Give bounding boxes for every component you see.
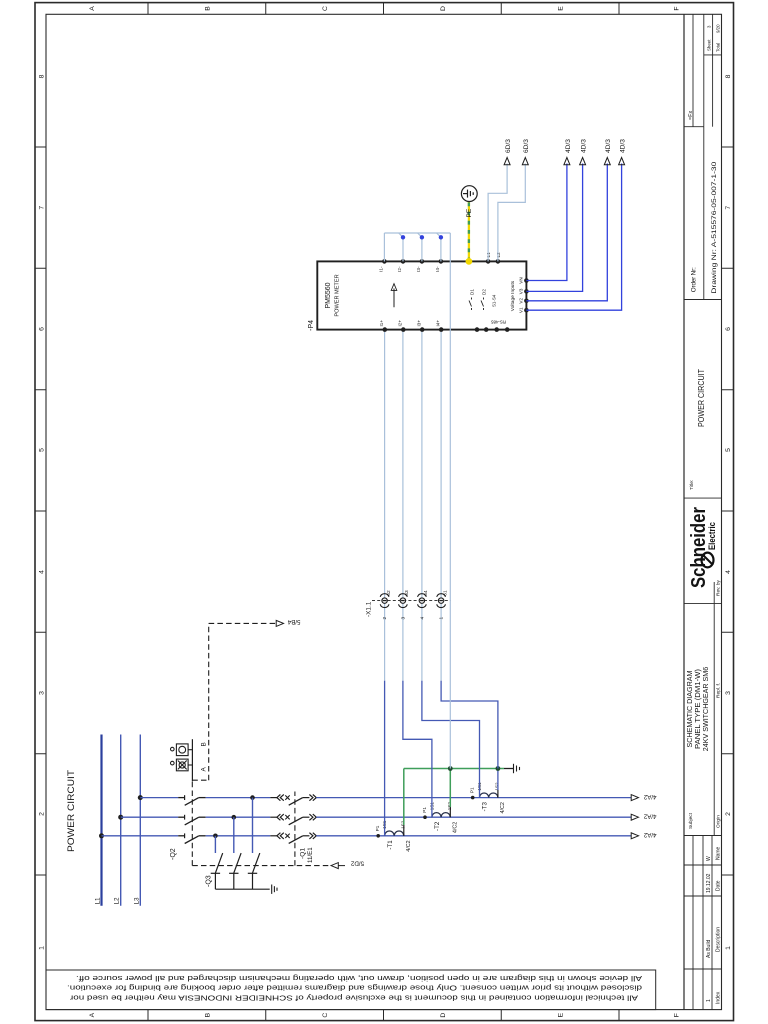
bus L2 — [120, 735, 122, 906]
linkage dashed through Q2 — [191, 780, 193, 865]
linkage dashed to 5/B4 — [208, 623, 210, 780]
disconnector Q2 pole 3 — [178, 795, 206, 805]
svg-text:-Q2: -Q2 — [170, 848, 177, 860]
svg-text:Total: Total — [716, 43, 721, 52]
column tick marks — [35, 147, 734, 875]
svg-text:4D/3: 4D/3 — [605, 139, 612, 153]
svg-text:19.12.02: 19.12.02 — [706, 873, 712, 893]
wire ref 6D/3 a — [488, 164, 507, 262]
svg-text:I4+: I4+ — [435, 320, 440, 327]
CT T2 — [422, 802, 458, 834]
meter pin labels current — [379, 266, 441, 326]
svg-text:4D/3: 4D/3 — [620, 139, 627, 153]
ground symbol Q3 — [272, 885, 277, 894]
svg-text:L1: L1 — [486, 252, 492, 258]
svg-text:PE: PE — [466, 208, 473, 217]
svg-text:11/E1: 11/E1 — [307, 847, 314, 863]
wire W3 dark — [422, 681, 480, 798]
wire pole3 drop — [140, 797, 178, 799]
terminal X1.1:2 — [380, 590, 392, 619]
svg-text:2: 2 — [725, 812, 732, 816]
terminal X1.1:4 — [418, 590, 430, 619]
breaker Q1 pole 1 — [270, 833, 316, 844]
wire pole3 lower — [316, 797, 631, 799]
wire pole1 drop — [102, 835, 179, 837]
wire W2 dark — [403, 681, 432, 818]
svg-text:4/C2: 4/C2 — [406, 840, 412, 851]
pale return bus horizontal — [449, 233, 451, 769]
meter voltage labels — [519, 277, 524, 313]
aux linkage bar — [191, 739, 193, 781]
svg-text:I2+: I2+ — [398, 320, 403, 327]
svg-text:I3-: I3- — [416, 266, 421, 272]
svg-text:Description: Description — [716, 927, 722, 952]
svg-text:PM5560: PM5560 — [325, 282, 332, 308]
svg-text:F: F — [674, 1013, 681, 1017]
disclaimer strip box — [46, 970, 656, 1010]
meter pins bottom edge — [524, 278, 529, 312]
svg-text:disclosed without its prior wr: disclosed without its prior written cons… — [67, 983, 642, 992]
svg-text:L1: L1 — [95, 897, 102, 905]
node green junction 2 — [496, 766, 501, 771]
meter pins right edge — [382, 259, 500, 264]
svg-text:3: 3 — [725, 691, 732, 695]
svg-text:L3: L3 — [133, 897, 140, 905]
svg-text:As Build: As Build — [706, 939, 712, 958]
svg-text:4D/3: 4D/3 — [565, 139, 572, 153]
svg-text:D1: D1 — [470, 289, 475, 295]
svg-text:POWER CIRCUIT: POWER CIRCUIT — [66, 769, 76, 852]
svg-text:6: 6 — [39, 327, 46, 331]
svg-text:Rev. by: Rev. by — [716, 579, 722, 596]
svg-text:All device shown in this diagr: All device shown in this diagram are in … — [76, 974, 642, 983]
svg-text:B: B — [204, 1012, 211, 1017]
svg-text:3: 3 — [39, 691, 46, 695]
meter flow arrow — [393, 289, 395, 308]
svg-text:I2-: I2- — [397, 266, 402, 272]
svg-text:6D/3: 6D/3 — [523, 139, 530, 153]
arrow ref 5/D2 — [331, 863, 338, 869]
node bus tap L1 — [99, 833, 104, 838]
svg-text:Repl. f.: Repl. f. — [716, 683, 722, 698]
earth bus of Q3 — [215, 888, 269, 890]
svg-text:61: 61 — [442, 590, 448, 596]
svg-text:=Fx: =Fx — [688, 111, 694, 120]
svg-text:1: 1 — [39, 946, 46, 950]
wire ref 6D/3 b — [498, 164, 525, 262]
node green junction 1 — [448, 766, 453, 771]
svg-text:C: C — [322, 6, 329, 11]
disclaimer text — [67, 974, 642, 1003]
aux contact A — [171, 759, 193, 771]
svg-text:3: 3 — [707, 25, 712, 28]
svg-text:-Q3: -Q3 — [206, 875, 213, 887]
svg-text:W: W — [706, 856, 712, 861]
svg-text:B: B — [201, 742, 208, 746]
svg-text:-Q1: -Q1 — [300, 848, 307, 859]
svg-text:L2: L2 — [114, 897, 121, 905]
wire W1 dark — [384, 681, 386, 836]
svg-text:8: 8 — [725, 74, 732, 78]
wire pole1 lower — [316, 835, 631, 837]
svg-text:Voltage Inputs: Voltage Inputs — [510, 280, 516, 311]
svg-text:4/A2: 4/A2 — [643, 813, 656, 820]
terminal X1.1:3 — [399, 590, 411, 619]
svg-text:Title:: Title: — [689, 480, 695, 490]
svg-text:64: 64 — [423, 590, 429, 596]
svg-text:6: 6 — [725, 327, 732, 331]
terminal strip X1.1 dashed — [372, 600, 451, 602]
pale wire I- hop — [437, 233, 443, 261]
svg-text:4/A2: 4/A2 — [643, 831, 656, 838]
svg-text:1: 1 — [725, 946, 732, 950]
svg-text:D: D — [440, 6, 447, 11]
svg-text:I4-: I4- — [435, 266, 440, 272]
svg-text:E: E — [558, 6, 565, 11]
terminal X1.1:1 — [437, 590, 449, 619]
svg-text:1: 1 — [706, 999, 712, 1002]
svg-text:9/20: 9/20 — [716, 24, 721, 33]
svg-text:C: C — [322, 1013, 329, 1018]
svg-text:62: 62 — [386, 590, 392, 596]
wire W3 pale — [421, 330, 423, 681]
sheet cells — [707, 24, 721, 52]
disconnector Q2 pole 1 — [178, 833, 206, 843]
meter D1 D2 inputs — [469, 298, 484, 311]
earthing switch Q3 pole 3 — [248, 795, 260, 889]
svg-text:-P4: -P4 — [308, 320, 315, 331]
svg-text:4: 4 — [39, 570, 46, 574]
pale wire I1- — [383, 233, 385, 261]
svg-text:P1: P1 — [470, 787, 475, 793]
revision table texts — [706, 846, 722, 1004]
svg-text:I1-: I1- — [379, 266, 384, 272]
svg-text:D: D — [440, 1013, 447, 1018]
pale wire I- hop — [418, 233, 424, 261]
svg-text:3: 3 — [400, 617, 406, 620]
wire pole2 mid — [206, 816, 271, 818]
svg-text:S1-S4: S1-S4 — [492, 294, 497, 307]
linkage dashed vertical — [192, 865, 331, 867]
power meter P4 box — [317, 261, 526, 329]
svg-text:5/B4: 5/B4 — [287, 618, 300, 625]
svg-text:Name: Name — [716, 846, 722, 860]
wire ref 4D/3 2 — [526, 164, 582, 292]
svg-text:Electric: Electric — [707, 522, 717, 550]
svg-text:A: A — [89, 6, 96, 11]
svg-text:P1: P1 — [375, 825, 380, 831]
svg-text:I3+: I3+ — [416, 320, 421, 327]
svg-text:2: 2 — [39, 812, 46, 816]
svg-text:1: 1 — [439, 617, 445, 620]
aux contact B — [171, 744, 193, 756]
wire pole2 lower — [316, 816, 631, 818]
bus L1 — [100, 735, 102, 906]
svg-text:2: 2 — [382, 617, 388, 620]
svg-text:4: 4 — [419, 617, 425, 620]
earthing switch Q3 pole 2 — [229, 815, 241, 889]
svg-text:Order Nr:: Order Nr: — [691, 267, 698, 292]
arrow ref 4/A2 pole1 — [631, 833, 638, 839]
subject section — [685, 579, 722, 829]
green earth bus — [404, 768, 504, 770]
svg-text:I1+: I1+ — [379, 320, 384, 327]
svg-text:V2: V2 — [519, 298, 524, 304]
svg-text:4/C2: 4/C2 — [452, 822, 458, 833]
disconnector Q2 pole 2 — [178, 815, 206, 825]
svg-text:V1: V1 — [519, 307, 524, 313]
svg-text:Drawing Nr: A-515576-05-007-1: Drawing Nr: A-515576-05-007-1-30 — [711, 161, 718, 293]
linkage dashed to aux — [192, 779, 208, 781]
green wire T2 1S2 — [449, 769, 451, 808]
svg-text:-T2: -T2 — [434, 821, 441, 831]
svg-text:Date: Date — [716, 880, 722, 891]
svg-text:A: A — [201, 767, 208, 772]
svg-text:B: B — [204, 6, 211, 11]
svg-text:-T1: -T1 — [387, 840, 394, 850]
svg-text:POWER METER: POWER METER — [335, 274, 341, 316]
row letters A-F — [89, 6, 681, 1018]
wire W1 pale — [384, 330, 386, 681]
green wire T1 1S2 — [403, 769, 405, 826]
svg-text:RS-485: RS-485 — [491, 320, 506, 325]
svg-text:7: 7 — [39, 206, 46, 210]
node bus tap L2 — [118, 815, 123, 820]
svg-text:Index: Index — [716, 991, 722, 1004]
arrow ref 4/A2 pole2 — [631, 814, 638, 820]
svg-text:F: F — [674, 6, 681, 10]
breaker Q1 pole 3 — [270, 795, 316, 806]
node PE yellow — [466, 258, 473, 265]
linkage dashed through Q1 — [294, 792, 296, 866]
svg-text:-X1.1: -X1.1 — [366, 601, 373, 617]
arrow ref 4/A2 pole3 — [631, 795, 638, 801]
wire ref 4D/3 3 — [526, 164, 607, 301]
svg-text:4/A2: 4/A2 — [643, 793, 656, 800]
svg-text:E: E — [558, 1012, 565, 1017]
svg-text:5/D2: 5/D2 — [350, 860, 364, 867]
linkage dashed drop 5/B4 — [209, 622, 277, 624]
PE wire yellow-green — [468, 202, 470, 262]
svg-text:1S2: 1S2 — [494, 782, 499, 791]
wire ref 4D/3 1 — [526, 164, 567, 281]
svg-text:Subject: Subject — [688, 812, 694, 829]
wire pole3 mid — [206, 797, 271, 799]
svg-text:Sheet: Sheet — [707, 39, 712, 51]
arrow ref 5/B4 — [276, 620, 283, 626]
svg-text:4D/3: 4D/3 — [581, 139, 588, 153]
wire ref 4D/3 4 — [526, 164, 621, 311]
breaker Q1 pole 2 — [270, 814, 316, 825]
Schneider Electric logo — [688, 507, 717, 588]
wire W4 dark — [441, 681, 498, 769]
svg-text:7: 7 — [725, 206, 732, 210]
row tick marks — [148, 3, 619, 1021]
earthing switch Q3 pole 1 — [211, 834, 223, 890]
svg-text:P1: P1 — [422, 807, 427, 813]
wire pole1 mid — [206, 835, 271, 837]
svg-text:A: A — [89, 1012, 96, 1017]
wire W2 pale — [402, 330, 404, 681]
svg-text:Origin: Origin — [716, 815, 722, 828]
PE terminal circle — [461, 186, 477, 202]
svg-text:24KV SWITCHGEAR SM6: 24KV SWITCHGEAR SM6 — [701, 667, 710, 751]
wire W4 pale — [440, 330, 442, 681]
svg-text:4: 4 — [725, 570, 732, 574]
svg-text:6D/3: 6D/3 — [505, 139, 512, 153]
svg-text:POWER CIRCUIT: POWER CIRCUIT — [697, 369, 706, 427]
wire T3 1S2 — [497, 769, 499, 791]
wire pole2 drop — [121, 816, 179, 818]
svg-text:4/C2: 4/C2 — [500, 802, 506, 813]
pale wire I- hop — [399, 233, 405, 261]
svg-text:63: 63 — [404, 590, 410, 596]
svg-text:5: 5 — [725, 448, 732, 452]
column numbers 1-8 — [39, 74, 733, 950]
CT T1 — [375, 820, 412, 852]
CT T3 — [470, 782, 506, 814]
pale return bus vertical — [384, 232, 450, 234]
svg-text:VN: VN — [519, 277, 524, 283]
node bus tap L3 — [138, 795, 143, 800]
title block outline — [684, 14, 722, 1009]
svg-text:V3: V3 — [519, 288, 524, 294]
svg-text:D2: D2 — [482, 289, 487, 295]
meter pins left edge — [383, 327, 510, 332]
svg-text:5: 5 — [39, 448, 46, 452]
bus L3 — [139, 735, 141, 906]
svg-text:8: 8 — [39, 74, 46, 78]
svg-text:-T3: -T3 — [482, 802, 489, 812]
ground symbol green — [514, 764, 520, 773]
svg-text:L2: L2 — [496, 252, 502, 258]
svg-text:All technical information cont: All technical information contained in t… — [69, 994, 638, 1003]
